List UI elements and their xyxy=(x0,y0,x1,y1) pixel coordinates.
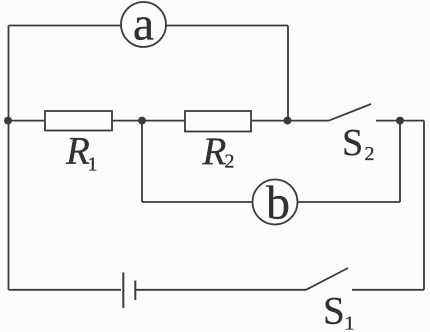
svg-text:2: 2 xyxy=(225,151,235,173)
svg-text:S: S xyxy=(342,122,363,164)
svg-text:S: S xyxy=(323,289,345,332)
svg-text:R: R xyxy=(202,130,227,173)
svg-text:1: 1 xyxy=(88,153,98,175)
svg-text:1: 1 xyxy=(345,312,355,332)
svg-text:2: 2 xyxy=(365,143,375,165)
svg-text:R: R xyxy=(65,130,90,173)
svg-text:a: a xyxy=(133,0,154,51)
svg-text:b: b xyxy=(266,177,290,230)
